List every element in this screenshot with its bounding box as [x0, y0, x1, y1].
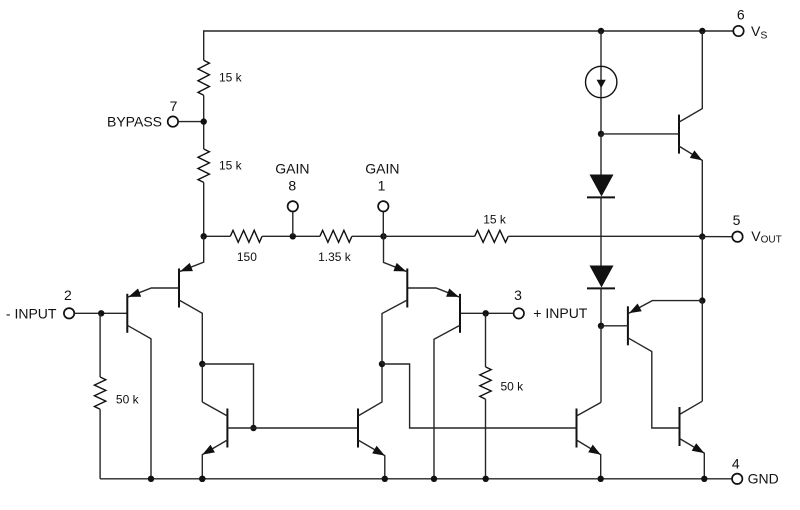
label pin number 7: [170, 98, 178, 114]
label R5 value 15 k: [483, 212, 507, 226]
label GAIN 8: [275, 161, 309, 177]
transistor Q2 base bar: [178, 269, 180, 308]
label pin number 5: [733, 212, 741, 228]
transistor Q8 base bar: [678, 115, 680, 154]
transistor Q10 emitter: [680, 439, 705, 479]
label pin number 2: [64, 287, 72, 303]
transistor Q1 base bar: [126, 294, 128, 333]
junction ground rail at Q1 collector: [148, 476, 154, 482]
svg-text:- INPUT: - INPUT: [6, 305, 57, 321]
svg-text:+ INPUT: + INPUT: [533, 305, 588, 321]
transistor Q9 collector: [628, 338, 680, 428]
label R2 value 15 k: [219, 159, 243, 173]
transistor Q5 base bar: [226, 409, 228, 448]
wire D2 to node B: [600, 288, 602, 325]
transistor Q10 base bar: [679, 407, 681, 446]
wire Q9 emitter node down: [701, 301, 703, 402]
pin 7 BYPASS terminal: [168, 116, 178, 126]
wire R3 to gain8 node: [262, 235, 320, 237]
svg-text:150: 150: [237, 250, 257, 264]
wire pin2 to Q1 base: [75, 312, 128, 314]
label GAIN 1: [365, 161, 399, 177]
transistor Q2 emitter: [179, 236, 204, 271]
wire minus input node to R6: [99, 313, 101, 377]
transistor Q9 emitter: [628, 301, 702, 314]
svg-text:5: 5: [733, 212, 741, 228]
transistor Q6 emitter: [358, 440, 385, 479]
junction ground rail at Q2 branch: [199, 476, 205, 482]
svg-text:6: 6: [737, 6, 745, 22]
junction ground rail at R7: [483, 476, 489, 482]
pin 5 VOUT terminal: [732, 232, 742, 242]
wire gain8 stub: [292, 212, 294, 236]
pin 8 GAIN terminal: [288, 201, 298, 211]
wire output node down right vertical: [701, 237, 703, 301]
wire node B to Q9 base: [601, 325, 628, 327]
svg-text:1.35 k: 1.35 k: [318, 250, 352, 264]
resistor R3 150: [230, 230, 262, 242]
wire gain1 node to R5: [384, 235, 475, 237]
transistor Q3 collector: [434, 325, 460, 479]
svg-text:GAIN: GAIN: [275, 161, 309, 177]
resistor R5 15 k: [475, 230, 509, 242]
label R3 value 150: [237, 250, 257, 264]
wire R2 to gain node: [203, 182, 205, 236]
label pin number 4: [732, 455, 740, 471]
svg-text:8: 8: [288, 177, 296, 193]
transistor Q1 collector: [127, 325, 151, 479]
junction ground rail at Q10 emitter: [701, 476, 707, 482]
pin 6 VS terminal: [733, 26, 743, 36]
wire D1 to D2: [600, 197, 602, 265]
resistor R1 15 k: [198, 60, 209, 95]
wire rail through current source to node A: [600, 31, 602, 134]
transistor Q1 emitter: [127, 288, 179, 297]
transistor Q10 collector: [680, 401, 703, 414]
label pin number 1: [378, 177, 386, 193]
wire R6 to ground rail: [99, 409, 101, 479]
transistor Q8 collector: [679, 31, 702, 122]
junction top rail at Q8 collector: [699, 28, 705, 34]
wire Q2 collector node to mirror base: [202, 364, 253, 428]
junction bypass node: [201, 118, 207, 124]
transistor Q5 collector: [202, 402, 227, 416]
transistor Q7 emitter: [577, 440, 601, 479]
pin 3 +INPUT terminal: [514, 308, 524, 318]
junction Q2 collector node: [199, 361, 205, 367]
label pin number 3: [514, 287, 522, 303]
wire gain1 stub: [382, 212, 384, 236]
label VOUT: [751, 228, 781, 246]
transistor Q6 collector: [358, 364, 382, 416]
wire Q4 collector node to Q7 base: [382, 364, 577, 428]
junction ground rail at Q3 collector: [431, 476, 437, 482]
junction Q4 collector node: [379, 361, 385, 367]
junction Q9 emitter node: [699, 297, 705, 303]
wire Q3 base to pin3: [460, 312, 513, 314]
svg-text:50 k: 50 k: [501, 379, 525, 393]
svg-text:VOUT: VOUT: [751, 228, 781, 246]
junction top rail at current source: [598, 28, 604, 34]
junction ground rail at Q6 emitter: [382, 476, 388, 482]
pin 1 GAIN terminal: [378, 201, 388, 211]
current source I1: [586, 66, 617, 97]
resistor R4 1.35 k: [320, 230, 352, 242]
wire R5 to output node: [508, 235, 702, 237]
wire output node to pin5: [702, 236, 732, 238]
wire R4 to gain1 node: [352, 235, 384, 237]
pin 2 -INPUT terminal: [64, 308, 74, 318]
label VS: [751, 23, 767, 42]
junction gain8 node: [290, 233, 296, 239]
junction node A (Q8 base feed): [598, 131, 604, 137]
label pin number 6: [737, 6, 745, 22]
junction output node: [699, 233, 705, 239]
svg-text:50 k: 50 k: [116, 393, 140, 407]
junction ground rail at Q7 emitter: [598, 476, 604, 482]
label BYPASS: [107, 113, 162, 129]
transistor Q2 collector: [179, 300, 202, 364]
wire node B to Q7 collector: [600, 326, 602, 403]
junction gain node left: [201, 233, 207, 239]
svg-text:GND: GND: [748, 471, 779, 487]
junction gain1 node: [380, 233, 386, 239]
wire mirror base line: [227, 427, 358, 429]
transistor Q4 base bar: [406, 269, 408, 308]
svg-text:VS: VS: [751, 23, 767, 42]
transistor Q7 collector: [577, 402, 602, 416]
svg-text:4: 4: [732, 455, 740, 471]
wire bias chain top segment: [203, 30, 205, 60]
label pin number 8: [288, 177, 296, 193]
junction minus input node: [98, 310, 104, 316]
transistor Q5 emitter: [202, 440, 227, 479]
wire pin7 to bias chain: [178, 121, 203, 123]
transistor Q6 base bar: [357, 409, 359, 448]
svg-text:15 k: 15 k: [219, 159, 243, 173]
wire R7 to ground rail: [485, 399, 487, 479]
transistor Q3 emitter: [407, 288, 460, 297]
wire gain node to R3: [204, 235, 231, 237]
label -INPUT: [6, 305, 57, 321]
resistor R7 50 k: [480, 367, 491, 399]
svg-text:2: 2: [64, 287, 72, 303]
diode D2: [587, 266, 615, 289]
svg-text:GAIN: GAIN: [365, 161, 399, 177]
wire bottom ground rail: [100, 478, 731, 480]
transistor Q8 emitter: [679, 146, 702, 237]
junction node B (Q9 base feed): [598, 323, 604, 329]
wire top supply rail: [204, 30, 733, 32]
wire node A to D1: [600, 134, 602, 175]
wire R1 to bypass node: [203, 95, 205, 149]
svg-text:15 k: 15 k: [483, 212, 507, 226]
label GND: [748, 471, 779, 487]
svg-text:BYPASS: BYPASS: [107, 113, 162, 129]
transistor Q9 base bar: [627, 306, 629, 345]
resistor R2 15 k: [198, 149, 209, 182]
wire Q2 collector node to Q5: [201, 364, 203, 402]
junction plus input node: [483, 310, 489, 316]
pin 4 GND terminal: [732, 474, 742, 484]
wire plus input node to R7: [485, 313, 487, 367]
wire node A to Q8 base: [601, 133, 679, 135]
transistor Q4 emitter: [384, 236, 408, 271]
transistor Q4 collector: [382, 300, 407, 364]
label R6 value 50 k: [116, 393, 140, 407]
junction mirror base left: [250, 425, 256, 431]
resistor R6 50 k: [94, 377, 105, 409]
transistor Q3 base bar: [459, 294, 461, 333]
svg-text:3: 3: [514, 287, 522, 303]
svg-text:1: 1: [378, 177, 386, 193]
label R4 value 1.35 k: [318, 250, 352, 264]
transistor Q7 base bar: [576, 409, 578, 448]
label +INPUT: [533, 305, 588, 321]
svg-text:15 k: 15 k: [219, 70, 243, 84]
diode D1: [587, 175, 615, 198]
svg-text:7: 7: [170, 98, 178, 114]
label R1 value 15 k: [219, 70, 243, 84]
label R7 value 50 k: [501, 379, 525, 393]
junction ground rail at Q5 emitter: [199, 476, 205, 482]
